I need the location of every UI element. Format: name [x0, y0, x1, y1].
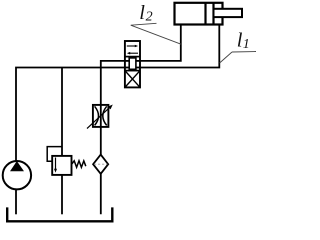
- label l2 leader: [131, 23, 181, 44]
- section dividers: [125, 56, 140, 58]
- top section arrows: [127, 45, 136, 47]
- wire: valve right lower port to cylinder right pipe: [129, 25, 219, 68]
- throttle (adjustable): [87, 105, 113, 129]
- wire: upper branch to valve left upper port: [101, 61, 136, 68]
- bottom section X: [126, 71, 140, 86]
- wire: relief valve drain to tank: [61, 175, 63, 214]
- filter F: [93, 155, 108, 174]
- pump: [3, 161, 31, 189]
- arrow inside: [55, 158, 57, 171]
- wire: pump suction to tank: [15, 189, 17, 214]
- cylinder: [175, 3, 243, 25]
- middle inner rect: [129, 58, 136, 69]
- directional valve (3-position distributor): [125, 41, 140, 87]
- wire: valve right upper port to cylinder left pipe: [129, 25, 181, 61]
- wire: pump pressure line (main horizontal): [16, 68, 136, 162]
- port stubs middle section: [125, 60, 140, 62]
- relief valve: [47, 147, 86, 175]
- spring: [72, 161, 86, 168]
- wire: throttle/filter branch: [100, 68, 102, 215]
- pilot line: [47, 147, 62, 162]
- label l1 leader: [220, 52, 256, 64]
- tank: [7, 207, 112, 221]
- wire: relief valve branch: [61, 68, 63, 156]
